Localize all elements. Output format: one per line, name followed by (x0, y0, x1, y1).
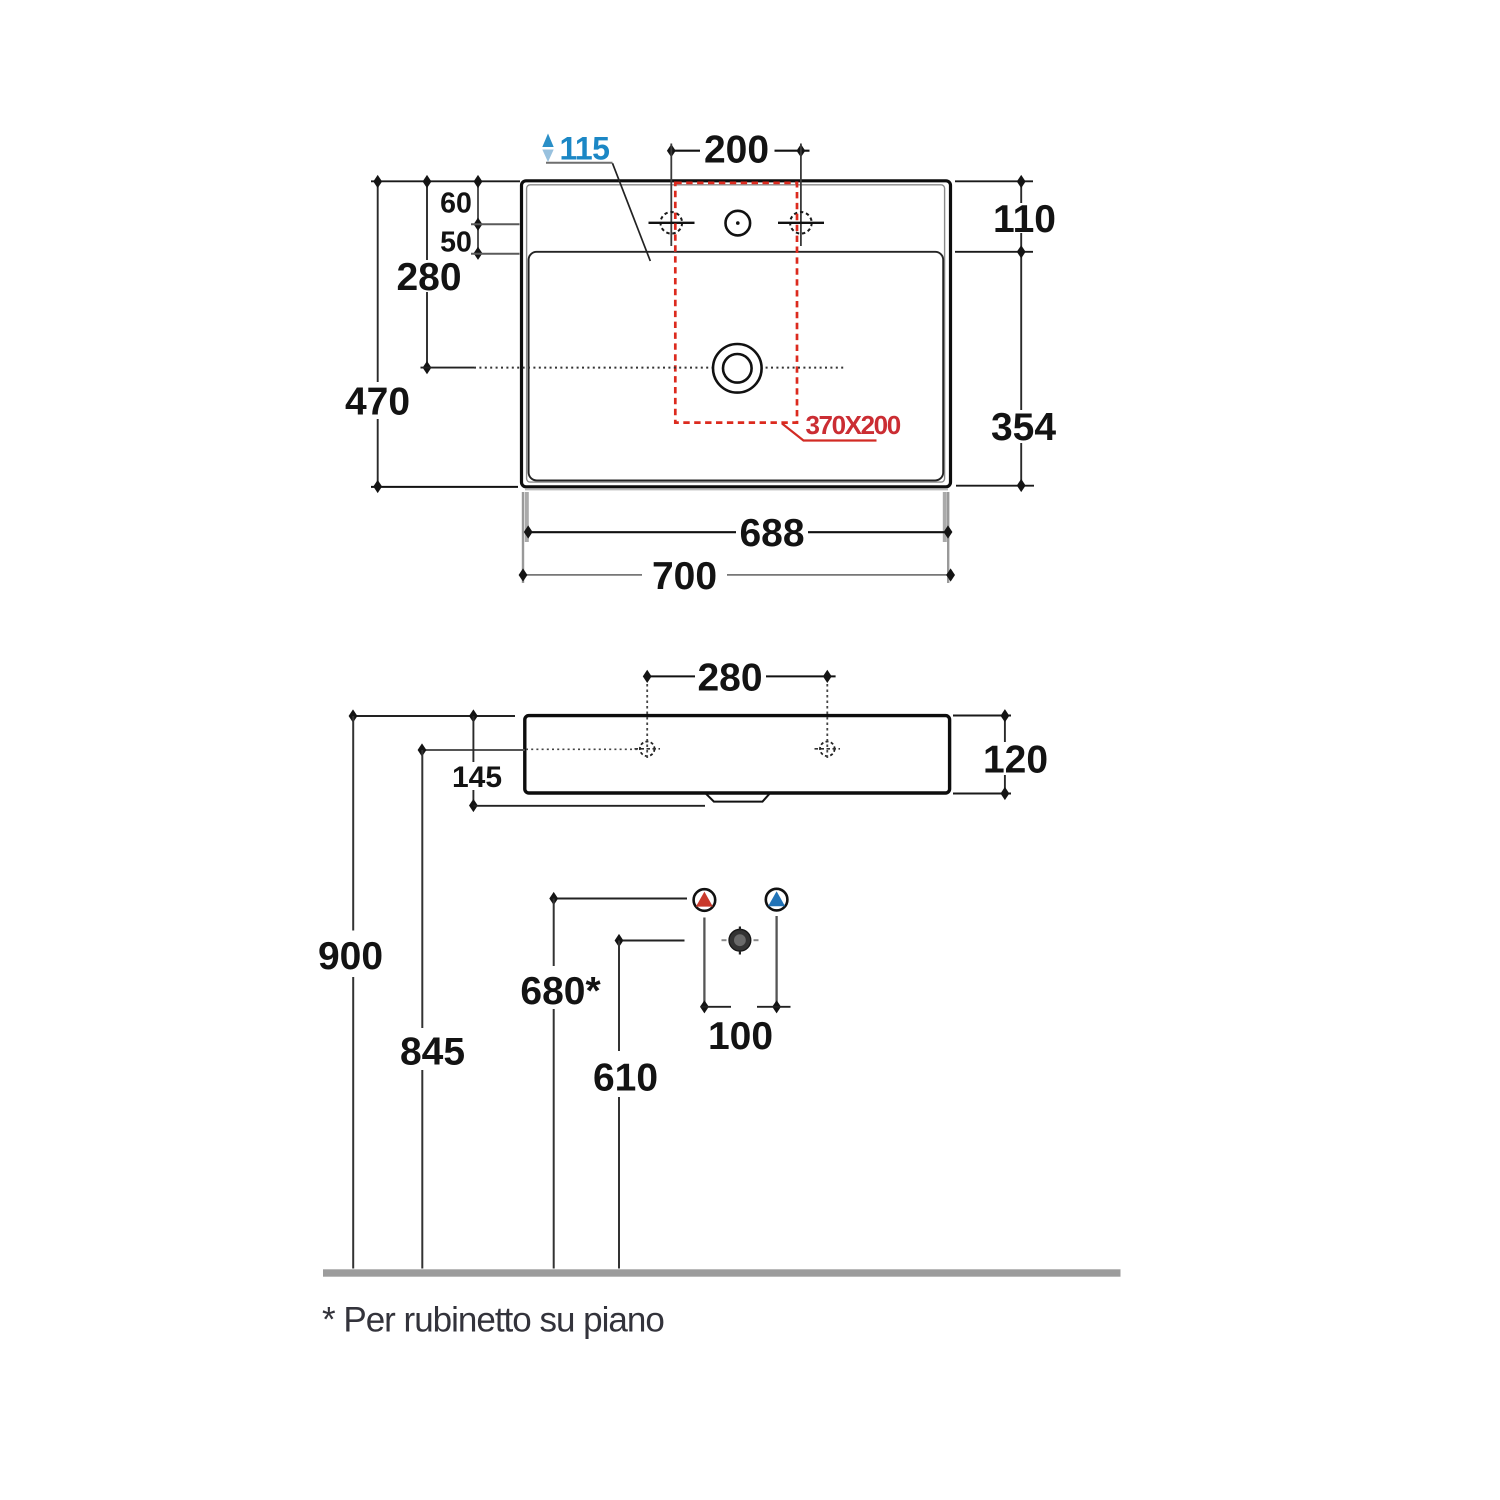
drain dash right (754, 939, 759, 941)
hot water symbol (694, 889, 716, 911)
svg-text:610: 610 (593, 1057, 658, 1100)
tick 200 left (667, 144, 676, 157)
extension 60 (471, 223, 520, 225)
drain inner circle (723, 354, 752, 383)
side faucet hole right (820, 742, 835, 757)
115 underline (546, 162, 613, 164)
tick 100 right (772, 1000, 781, 1013)
drain outer circle (713, 344, 762, 393)
dimension 470 line (377, 182, 379, 383)
extension 200 left / crosshair arm (670, 144, 672, 247)
blue height arrows icon (542, 134, 553, 148)
dimension 700 (523, 574, 642, 576)
svg-text:50: 50 (440, 227, 472, 259)
extension right mid (955, 251, 1033, 253)
tick 6050 top (474, 175, 483, 188)
145 bottom line (473, 805, 705, 807)
tick 610 top (615, 934, 624, 947)
svg-text:370X200: 370X200 (806, 410, 901, 440)
svg-text:470: 470 (345, 380, 410, 423)
washbasin side view body (525, 716, 950, 793)
svg-text:100: 100 (708, 1015, 773, 1058)
dimension 110/354 line (1020, 182, 1022, 204)
dimension 900 vertical (352, 716, 354, 931)
svg-text:60: 60 (440, 188, 472, 220)
basin bowl rim (529, 252, 944, 481)
hot drop line (703, 918, 705, 1007)
tick 470 bottom (373, 480, 382, 493)
tick 110 top (1017, 175, 1026, 188)
extension 688 right gray (943, 492, 947, 542)
wall line top (353, 715, 515, 717)
faucet hole right (dashed crosshair) (790, 212, 812, 234)
extension right top (955, 180, 1033, 182)
dimension 200 (672, 150, 701, 152)
extension line bottom left (371, 486, 518, 488)
extension line top left (371, 180, 520, 182)
svg-text:280: 280 (697, 657, 762, 700)
tick 145 top (469, 709, 478, 722)
faucet hole left (dashed crosshair) (661, 212, 683, 234)
dimension 680* (554, 898, 687, 900)
dimension 60/50 line (477, 182, 479, 259)
washbasin top view outer body (522, 181, 951, 487)
tick 680 top (549, 892, 558, 905)
faucet hole center (726, 211, 751, 236)
tick 280 top (423, 175, 432, 188)
svg-text:280: 280 (396, 256, 461, 299)
tick 120 top (1001, 709, 1010, 722)
svg-text:680*: 680* (520, 970, 601, 1013)
dotted centerline (474, 367, 846, 369)
dotted line to left hole (526, 748, 640, 750)
extension 688 left gray (525, 492, 529, 542)
drain tick top (739, 927, 741, 931)
svg-text:145: 145 (452, 761, 502, 794)
extension right bottom (956, 485, 1034, 487)
tick 688 left (524, 525, 533, 538)
svg-text:* Per rubinetto su piano: * Per rubinetto su piano (322, 1301, 664, 1340)
tick 470 top (373, 175, 382, 188)
drain connection symbol (729, 929, 751, 951)
tick 280s right (823, 670, 832, 683)
svg-text:200: 200 (704, 129, 769, 172)
line 845 to body (422, 749, 525, 751)
tick 280s left (643, 670, 652, 683)
svg-text:120: 120 (983, 739, 1048, 782)
extension 50 (471, 253, 520, 255)
tick 120 bottom (1001, 787, 1010, 800)
dimension 845 vertical (421, 750, 423, 1028)
red dashed cutout rectangle 370X200 (675, 183, 797, 423)
dimension 280 side (647, 675, 695, 677)
tick 845 top (418, 743, 427, 756)
dotted vertical left hole (646, 684, 648, 761)
floor line (323, 1269, 1121, 1276)
115 leader diagonal (613, 163, 651, 261)
tick 6050 bot (474, 247, 483, 260)
drain dash left (722, 939, 727, 941)
tick 6050 mid (474, 218, 483, 231)
cold water symbol (766, 889, 788, 911)
tick 688 right (944, 525, 953, 538)
red leader line (782, 424, 877, 441)
dotted vertical right hole (826, 684, 828, 761)
tick 280 bottom (423, 361, 432, 374)
tick 700 left (519, 568, 528, 581)
tick 900 top (349, 709, 358, 722)
tick 200 right (797, 144, 806, 157)
extension 200 right / crosshair arm (800, 144, 802, 247)
cold drop line (775, 916, 777, 1007)
svg-text:354: 354 (991, 406, 1056, 449)
svg-text:110: 110 (993, 198, 1056, 241)
tick 110 bottom (1017, 245, 1026, 258)
tick 100 left (700, 1000, 709, 1013)
extension 280 bottom (421, 367, 475, 369)
svg-text:900: 900 (318, 935, 383, 978)
extension 700 left gray (522, 492, 524, 583)
svg-text:688: 688 (739, 512, 804, 555)
washbasin bottom shadow line (525, 488, 948, 490)
dimension 145 (472, 716, 474, 762)
dimension 610 (619, 940, 685, 942)
dimension 280 line (426, 182, 428, 261)
washbasin top view inner edge highlight (527, 185, 945, 482)
svg-text:845: 845 (400, 1031, 465, 1074)
tick 700 right (946, 568, 955, 581)
extension 700 right gray (947, 492, 949, 583)
dimension 120 (953, 715, 1011, 717)
tick 145 bottom (469, 799, 478, 812)
svg-text:700: 700 (652, 555, 717, 598)
drain tick bottom (739, 950, 741, 955)
drain recess notch (706, 793, 770, 801)
dimension 688 (528, 531, 736, 533)
svg-text:115: 115 (560, 131, 610, 167)
side faucet hole left (640, 742, 655, 757)
tick 354 bottom (1017, 479, 1026, 492)
